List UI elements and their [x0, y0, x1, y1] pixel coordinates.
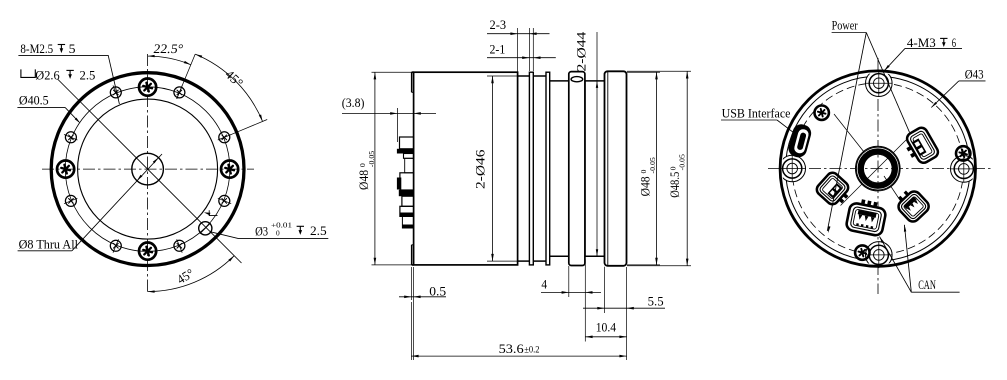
label Ø48 right — [637, 157, 657, 196]
extension line 67.5 deg — [177, 54, 196, 99]
rear view vertical centerline — [877, 58, 879, 294]
M3 screw boss bottom — [866, 242, 893, 269]
dim 2-Ø44 — [596, 32, 598, 256]
phillips screw P1 at 22.5 deg — [219, 132, 230, 143]
front view Ø8 leader diagonal — [72, 154, 162, 251]
cover torx screw right — [956, 146, 970, 160]
dim 2-1 — [532, 28, 534, 71]
radial tick at 247.5 deg — [113, 239, 119, 252]
power connector upper right — [901, 126, 940, 168]
label Ø48 left — [356, 151, 376, 190]
radial tick at 112.5 deg — [113, 86, 119, 99]
front view bolt circle — [65, 87, 230, 252]
side view rear cover step — [411, 72, 413, 92]
dowel pin hole cross line — [200, 223, 211, 234]
front view horizontal centerline — [42, 168, 254, 170]
leader Power to upper right connector — [866, 33, 909, 133]
dim 53.6 — [410, 302, 412, 360]
rear view outer circle — [780, 71, 975, 266]
svg-text:+0.01: +0.01 — [271, 220, 292, 229]
svg-text:5.5: 5.5 — [648, 293, 664, 308]
svg-text:Ø48.5: Ø48.5 — [667, 172, 682, 198]
torx screw T4 at 270 deg — [139, 243, 156, 260]
rib 1 — [529, 72, 533, 265]
svg-text:2-Ø46: 2-Ø46 — [473, 149, 488, 189]
svg-text:4: 4 — [541, 277, 547, 292]
dowel pin hole at 315 deg — [199, 222, 212, 235]
svg-text:Ø43: Ø43 — [965, 67, 984, 82]
svg-text:2.5: 2.5 — [80, 67, 96, 82]
CAN connector bottom center — [845, 197, 887, 236]
groove surfaces — [518, 75, 530, 77]
leader Power to lower left connector — [827, 33, 866, 232]
rib 2 — [546, 72, 550, 265]
front view diagonal line through dowel hole — [58, 79, 242, 263]
phillips screw P4 at 157.5 deg — [65, 132, 76, 143]
dim 2-Ø46 — [487, 75, 518, 77]
svg-text:5: 5 — [69, 41, 76, 56]
pointer mark near dowel hole — [204, 212, 211, 215]
rear view radial line to USB — [834, 114, 864, 152]
phillips screw P6 at 247.5 deg — [110, 240, 121, 251]
svg-text:6: 6 — [952, 35, 957, 50]
svg-text:0: 0 — [639, 170, 648, 174]
radial tick at 67.5 deg — [177, 86, 183, 99]
connector side profile upper — [400, 137, 414, 149]
svg-text:Ø2.6: Ø2.6 — [35, 67, 60, 82]
leader diameter 40.5 — [17, 106, 65, 108]
phillips screw P3 at 112.5 deg — [110, 87, 121, 98]
USB connector — [787, 122, 814, 159]
dim Ø48 left — [372, 71, 412, 73]
cover torx screw upper left — [815, 106, 829, 120]
leader USB Interface — [777, 120, 795, 133]
rear view radial line lower right — [884, 176, 910, 215]
svg-text:10.4: 10.4 — [596, 319, 617, 334]
leader CAN to bottom connector — [880, 237, 912, 293]
Ø8 dimension arrow upper-right — [153, 158, 159, 164]
M3 screw boss top — [866, 70, 893, 97]
svg-text:Ø40.5: Ø40.5 — [19, 92, 49, 107]
connector side profile recess — [405, 158, 414, 173]
radial tick at 157.5 deg — [64, 135, 77, 141]
front view center hole — [132, 153, 164, 185]
dim 5.5 — [604, 267, 606, 313]
center hole ring — [856, 146, 901, 191]
rear view diagonal line — [841, 136, 911, 206]
radial tick at 292.5 deg — [177, 239, 183, 252]
svg-text:22.5°: 22.5° — [153, 41, 185, 56]
svg-text:Ø8 Thru All: Ø8 Thru All — [19, 237, 79, 252]
svg-text:8-M2.5: 8-M2.5 — [20, 41, 53, 56]
dim 2-3 — [517, 28, 519, 72]
svg-text:Ø48: Ø48 — [356, 170, 371, 190]
connector side profile middle — [400, 173, 414, 190]
dimension arc 45deg upper right — [195, 54, 262, 121]
raised ring — [569, 72, 585, 266]
leader CAN to bottom right connector — [904, 225, 911, 292]
torx screw T3 at 180 deg — [57, 161, 74, 178]
rear view inner circle — [786, 76, 971, 261]
label Ø48.5 — [667, 154, 687, 198]
label counterbore Ø2.6 depth 2.5 — [21, 69, 35, 77]
svg-text:Ø3: Ø3 — [255, 223, 268, 238]
torx screw T2 at 90 deg — [139, 79, 156, 96]
label 22.5deg — [153, 41, 185, 56]
svg-text:Ø48: Ø48 — [637, 176, 652, 196]
torx screw T1 at 0 deg — [221, 161, 238, 178]
phillips screw P5 at 202.5 deg — [65, 195, 76, 206]
radial tick at 202.5 deg — [64, 198, 77, 204]
dim 4 — [568, 266, 570, 297]
front flange — [605, 71, 627, 265]
svg-text:2-1: 2-1 — [490, 42, 506, 57]
cover torx screw bottom — [855, 245, 869, 259]
CAN connector bottom right — [893, 185, 932, 224]
leader 4-M3 — [884, 48, 905, 70]
Ø8 dimension arrow lower-left — [137, 175, 143, 181]
dim Ø48.5 — [627, 70, 691, 72]
rear view horizontal centerline — [768, 168, 992, 170]
svg-text:0: 0 — [358, 163, 367, 167]
M3 screw boss right — [951, 156, 978, 183]
dim Ø48 right — [627, 71, 660, 73]
leader diameter 8 — [18, 250, 72, 252]
svg-text:0: 0 — [276, 228, 280, 237]
dim 10.4 — [585, 336, 626, 338]
leader diameter 3 — [239, 238, 329, 240]
power connector lower left — [814, 170, 854, 209]
svg-text:Power: Power — [832, 17, 859, 32]
diameter44 surface a — [550, 80, 569, 82]
svg-text:2-Ø44: 2-Ø44 — [573, 31, 588, 71]
front view vertical centerline — [147, 54, 149, 292]
connector side profile lower — [402, 216, 413, 228]
svg-text:(3.8): (3.8) — [342, 95, 365, 110]
dim 0.5 — [410, 267, 412, 300]
leader diameter 43 — [931, 81, 959, 108]
svg-text:CAN: CAN — [918, 277, 936, 292]
svg-text:-0.05: -0.05 — [648, 157, 657, 173]
svg-text:2-3: 2-3 — [490, 17, 507, 32]
diameter44 surface b — [585, 80, 605, 82]
phillips screw P2 at 67.5 deg — [174, 87, 185, 98]
dimension arc 22.5deg — [148, 56, 191, 65]
M3 screw boss left — [779, 155, 806, 182]
svg-text:-0.05: -0.05 — [678, 154, 687, 170]
leader 8-M2.5 — [18, 55, 119, 104]
svg-text:2.5: 2.5 — [310, 223, 327, 238]
svg-text:53.6: 53.6 — [499, 341, 525, 356]
radial tick at 337.5 deg — [218, 198, 231, 204]
side view body outline — [414, 72, 518, 265]
svg-text:-0.05: -0.05 — [367, 151, 376, 167]
phillips screw P8 at 337.5 deg — [219, 195, 230, 206]
radial tick at 22.5 deg — [218, 135, 231, 141]
front view inner circle — [78, 99, 218, 239]
svg-text:4-M3: 4-M3 — [907, 35, 936, 50]
front view outer circle — [51, 73, 244, 266]
rear view bolt circle dashed — [792, 83, 963, 254]
svg-text:0.5: 0.5 — [429, 284, 446, 299]
svg-text:0: 0 — [669, 166, 678, 170]
set screw hole ellipse — [571, 77, 583, 82]
svg-text:USB Interface: USB Interface — [722, 105, 791, 120]
extension line 22.5 deg — [231, 120, 268, 135]
phillips screw P7 at 292.5 deg — [174, 240, 185, 251]
dimension arc 45deg bottom — [148, 256, 235, 292]
svg-text:±0.2: ±0.2 — [524, 344, 539, 354]
